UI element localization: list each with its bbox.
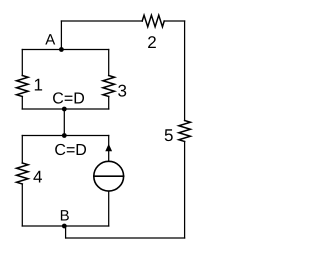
resistor R5	[179, 121, 191, 142]
wire lower loop bottom edge	[22, 225, 108, 227]
wire upper loop top edge	[22, 49, 108, 51]
wire top rail left of R2	[61, 20, 142, 22]
wire upper loop right edge above R3	[108, 50, 110, 76]
wire lower loop top edge	[22, 135, 108, 137]
wire node A up to top rail	[60, 21, 62, 50]
svg-text:C=D: C=D	[54, 142, 86, 159]
resistor R2	[142, 15, 164, 27]
wire upper loop left edge above R1	[21, 50, 23, 76]
wire stub from node B down to bottom rail	[65, 226, 67, 238]
svg-text:1: 1	[33, 76, 42, 95]
node D junction dot	[62, 133, 67, 138]
wire current-source branch upper lead	[108, 136, 110, 162]
current source I1 circle	[94, 161, 124, 191]
node C junction dot	[62, 107, 67, 112]
node B junction dot	[62, 224, 67, 229]
resistor R3	[103, 76, 115, 97]
wire current-source branch lower lead	[108, 191, 110, 226]
wire upper loop left edge below R1	[21, 97, 23, 110]
wire right rail below R5	[184, 142, 186, 239]
svg-text:A: A	[45, 32, 55, 49]
current source arrow head	[105, 144, 112, 152]
wire lower loop left edge below R4	[21, 184, 23, 226]
svg-text:4: 4	[33, 168, 42, 187]
svg-text:B: B	[60, 208, 70, 225]
current source I1 chord line	[94, 175, 124, 177]
resistor R4	[17, 163, 29, 184]
wire right rail above R5	[184, 21, 186, 121]
node A junction dot	[59, 47, 64, 52]
wire bottom rail	[66, 237, 185, 239]
wire top rail right of R2	[164, 20, 184, 22]
svg-text:C=D: C=D	[52, 91, 84, 108]
wire upper loop right edge below R3	[108, 97, 110, 110]
wire upper loop bottom edge	[22, 108, 108, 110]
svg-text:3: 3	[117, 81, 126, 100]
svg-text:5: 5	[164, 126, 173, 145]
wire connector between C and D nodes	[63, 109, 65, 136]
resistor R1	[17, 76, 29, 97]
svg-text:2: 2	[147, 33, 156, 52]
wire lower loop left edge above R4	[21, 136, 23, 164]
